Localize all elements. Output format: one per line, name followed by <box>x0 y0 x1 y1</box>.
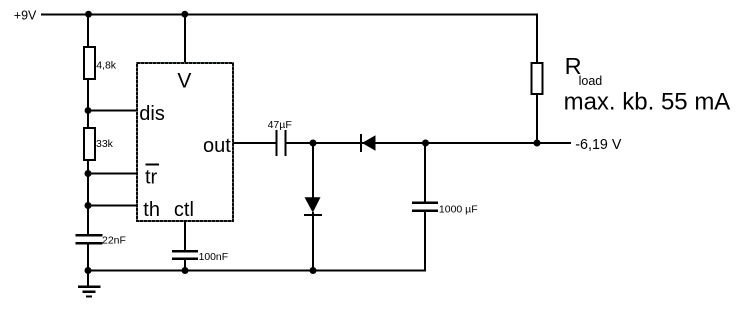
capacitor C1 22nF plate 1 <box>76 234 103 237</box>
resistor R2 33k <box>84 128 95 160</box>
ground symbol bar 3 <box>86 296 92 298</box>
svg-text:V: V <box>177 70 191 93</box>
ground symbol bar 1 <box>78 285 101 288</box>
wire tr pin <box>88 173 137 175</box>
wire 1000uF bottom to ground bus <box>424 210 426 271</box>
capacitor C1 22nF plate 2 <box>76 242 103 245</box>
wire ctl cap to ground bus <box>184 258 186 271</box>
svg-text:33k: 33k <box>96 138 114 150</box>
wire diode D2 anode <box>312 143 314 198</box>
resistor R1 4,8k <box>84 47 95 79</box>
wire left rail segment 3 <box>87 160 89 236</box>
pin label tr overline <box>146 164 159 166</box>
junction out node / diode D2 branch <box>310 140 317 147</box>
svg-text:th: th <box>143 199 160 221</box>
junction left rail / dis wire <box>85 107 92 114</box>
capacitor C4 1000uF plate 2 <box>412 209 438 212</box>
junction left rail / ground bus <box>85 267 92 274</box>
wire -6,19V line <box>425 142 571 144</box>
junction ground bus / ctl cap <box>182 267 189 274</box>
ground symbol bar 2 <box>83 290 96 293</box>
wire out pin <box>233 142 276 144</box>
capacitor C2 100nF plate 2 <box>172 257 198 260</box>
wire +9V top bus <box>41 14 538 16</box>
svg-text:1000 µF: 1000 µF <box>439 203 478 215</box>
diode D1 triangle <box>362 135 376 150</box>
junction top bus / V pin wire <box>181 11 188 18</box>
svg-text:100nF: 100nF <box>199 252 228 263</box>
wire 47uF cap to diode D1 <box>286 142 426 144</box>
svg-text:out: out <box>203 135 231 157</box>
svg-text:dis: dis <box>139 103 165 125</box>
junction left rail / th wire <box>85 202 92 209</box>
svg-text:22nF: 22nF <box>102 234 126 246</box>
wire ground stub <box>87 270 89 287</box>
junction top bus / left rail <box>85 11 92 18</box>
capacitor C3 47uF plate 2 <box>285 130 287 156</box>
wire left rail segment 4 <box>87 243 89 271</box>
wire bottom ground bus <box>88 270 426 272</box>
svg-text:ctl: ctl <box>174 199 194 221</box>
diode D1 cathode bar <box>360 134 362 152</box>
wire R load bottom <box>536 94 538 144</box>
junction left rail / tr wire <box>85 170 92 177</box>
svg-text:4,8k: 4,8k <box>96 59 117 71</box>
capacitor C2 100nF plate 1 <box>172 250 198 253</box>
svg-text:load: load <box>579 74 603 88</box>
wire left rail segment 2 <box>87 79 89 128</box>
wire R load top <box>536 14 538 64</box>
wire left rail segment 1 <box>87 14 89 48</box>
wire ctl pin <box>184 221 186 251</box>
svg-text:tr: tr <box>145 166 158 188</box>
resistor R load body <box>532 63 543 94</box>
svg-text:-6,19 V: -6,19 V <box>575 137 622 153</box>
svg-text:+9V: +9V <box>14 8 37 22</box>
wire th pin <box>88 205 137 207</box>
junction out node / 1000uF branch <box>422 140 429 147</box>
junction -6,19V line / R load <box>534 140 541 147</box>
op-amp / timer IC U1 body <box>137 63 233 221</box>
wire dis pin <box>88 110 137 112</box>
diode D2 triangle <box>305 197 321 212</box>
svg-text:47µF: 47µF <box>268 119 292 131</box>
diode D2 cathode bar <box>304 214 322 216</box>
wire V pin to top bus <box>184 14 186 63</box>
wire diode D2 cathode to ground bus <box>312 212 314 271</box>
svg-text:max. kb. 55 mA: max. kb. 55 mA <box>564 88 731 115</box>
junction ground bus / diode D2 <box>310 267 317 274</box>
capacitor C4 1000uF plate 1 <box>412 201 438 204</box>
capacitor C3 47uF plate 1 <box>276 130 278 156</box>
wire 1000uF top <box>424 143 426 202</box>
